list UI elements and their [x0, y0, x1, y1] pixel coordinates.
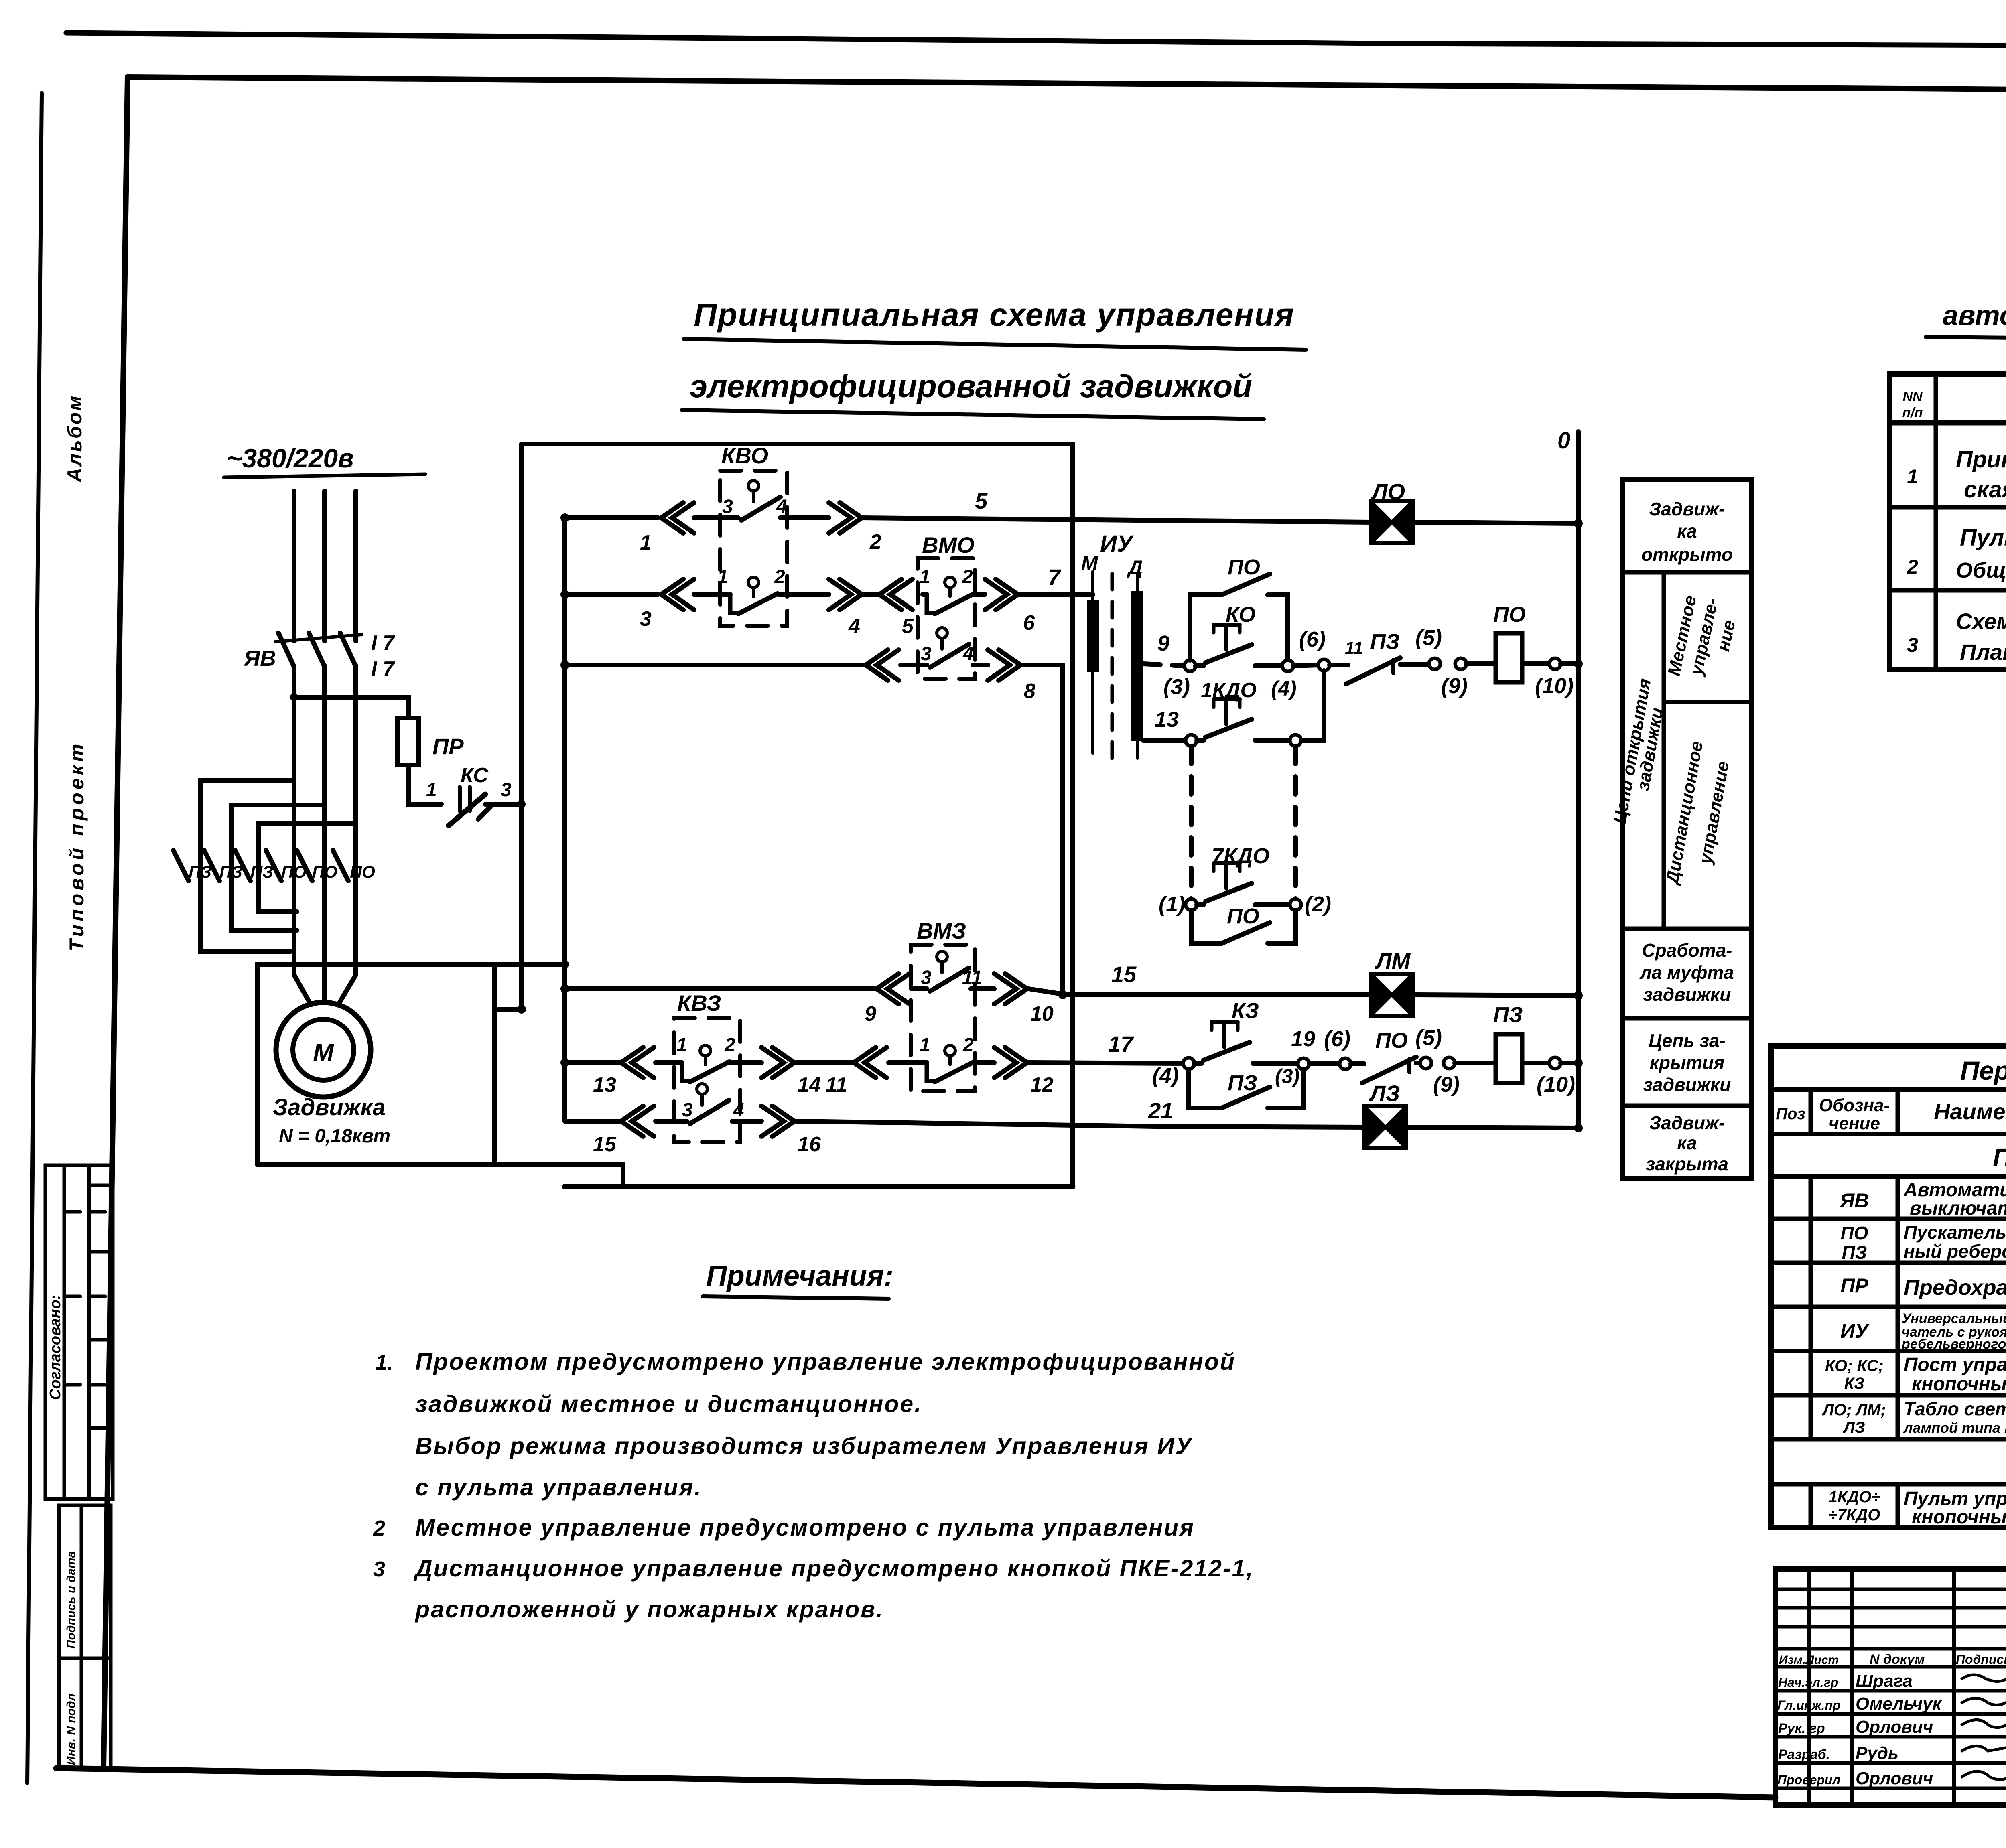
svg-text:21: 21 — [1148, 1098, 1173, 1123]
wire 13 — [1143, 738, 1186, 743]
wire rowC (circuit 21) — [565, 1121, 1155, 1126]
svg-text:Пускатель магнит-: Пускатель магнит- — [1904, 1222, 2006, 1243]
selector Д bar — [1136, 574, 1139, 758]
node (3) — [1184, 660, 1196, 671]
svg-text:3: 3 — [1907, 634, 1918, 656]
svg-text:ПЗ: ПЗ — [1493, 1003, 1523, 1027]
wire 21 to lamp ЛЗ — [1155, 1126, 1578, 1128]
svg-text:ПО: ПО — [312, 862, 337, 881]
svg-text:Орлович: Орлович — [1856, 1717, 1933, 1737]
limit switch KVO dashed box — [720, 471, 787, 626]
svg-text:ПР: ПР — [1840, 1274, 1868, 1297]
junction on L1 for fuse tap — [290, 693, 298, 701]
junction KC bus — [518, 800, 526, 808]
wire rowB (circuit 17) — [565, 1063, 1184, 1063]
wire to motor enclosure — [495, 1007, 522, 1012]
svg-text:Принципиальная схема управле: Принципиальная схема управления — [694, 297, 1295, 333]
wire row3 (circuit to 8) — [565, 663, 1063, 667]
svg-text:ПР: ПР — [432, 734, 464, 759]
svg-text:ка: ка — [1677, 521, 1697, 542]
signal lamp ЛМ — [1371, 974, 1413, 1016]
svg-text:закрыта: закрыта — [1646, 1154, 1728, 1175]
svg-text:Схема внешних соединений: Схема внешних соединений — [1956, 609, 2006, 634]
svg-text:Альбом: Альбом — [63, 394, 86, 483]
svg-text:13: 13 — [1155, 708, 1179, 732]
svg-text:3: 3 — [682, 1099, 693, 1121]
svg-text:Омельчук: Омельчук — [1856, 1694, 1943, 1714]
svg-text:КС: КС — [461, 764, 489, 787]
svg-text:(6): (6) — [1299, 627, 1326, 651]
svg-text:ный реберсивный: ный реберсивный — [1904, 1241, 2006, 1262]
motor M outer circle — [276, 1002, 371, 1097]
reversing bridge 1 — [200, 780, 294, 951]
chevron connector 10 — [994, 974, 1027, 1004]
svg-text:КО: КО — [1226, 602, 1256, 627]
svg-text:Выбор режима производится: Выбор режима производится избирателем Уп… — [415, 1433, 1193, 1459]
left bus rail — [562, 518, 567, 1121]
wire row1 (circuit 5) — [565, 518, 1578, 523]
svg-text:ЛО; ЛМ;: ЛО; ЛМ; — [1821, 1401, 1886, 1419]
node (4) — [1282, 660, 1293, 671]
svg-text:16: 16 — [798, 1133, 821, 1156]
chevron connector 6 — [985, 579, 1018, 610]
svg-text:Рудь: Рудь — [1856, 1743, 1898, 1763]
svg-text:2: 2 — [774, 566, 785, 588]
svg-text:(6): (6) — [1324, 1027, 1350, 1051]
svg-text:КО; КС;: КО; КС; — [1825, 1357, 1884, 1375]
chevron connector row3 left — [866, 650, 899, 680]
svg-text:лампой типа РНЦ-220/10: лампой типа РНЦ-220/10 — [1903, 1420, 2006, 1436]
svg-text:NN: NN — [1902, 389, 1923, 404]
svg-text:19: 19 — [1291, 1027, 1315, 1051]
svg-text:5: 5 — [975, 488, 988, 513]
svg-text:4: 4 — [776, 496, 787, 517]
wire 13 up to node 6 — [1301, 671, 1324, 740]
svg-text:ла муфта: ла муфта — [1639, 962, 1734, 983]
main frame left line — [104, 77, 128, 1767]
svg-text:7КДО: 7КДО — [1212, 844, 1269, 868]
svg-text:1: 1 — [920, 566, 930, 588]
node (5) — [1429, 658, 1440, 669]
svg-text:2: 2 — [1907, 556, 1918, 578]
svg-text:(10): (10) — [1535, 674, 1574, 698]
svg-text:ская схема: ская схема — [1964, 477, 2006, 503]
contactor blade ПО a — [266, 850, 281, 881]
chevron connector 9 — [877, 974, 910, 1004]
svg-text:11: 11 — [826, 1073, 847, 1097]
svg-text:N = 0,18квт: N = 0,18квт — [279, 1126, 390, 1147]
node (10) close — [1549, 1057, 1561, 1069]
svg-text:Сработа-: Сработа- — [1642, 940, 1732, 961]
annotation inner vertical — [1664, 572, 1752, 929]
contactor blade ПО c — [333, 850, 348, 881]
reversing bridge 2 — [232, 805, 325, 930]
wire 8 drop to lower section — [1060, 665, 1065, 995]
PO lower blade — [1222, 923, 1270, 943]
svg-text:2: 2 — [869, 530, 881, 554]
svg-text:5: 5 — [902, 615, 914, 638]
svg-text:Проверил: Проверил — [1777, 1773, 1841, 1787]
annotation column box — [1622, 479, 1752, 1178]
NC contact ПО — [1351, 1061, 1364, 1066]
main relay panel box top — [522, 442, 1073, 446]
motor enclosure box — [257, 964, 565, 1164]
svg-text:Подпись и дата: Подпись и дата — [65, 1551, 78, 1649]
svg-text:ЯВ: ЯВ — [1839, 1189, 1869, 1212]
svg-text:3: 3 — [501, 779, 512, 801]
main frame top line — [128, 77, 2006, 93]
svg-text:Табло световое с: Табло световое с — [1904, 1398, 2006, 1419]
svg-text:Орлович: Орлович — [1856, 1769, 1933, 1788]
wire 15 to lamp — [1062, 995, 1578, 996]
chevron connector 3 — [661, 579, 694, 610]
svg-text:4: 4 — [848, 615, 860, 638]
contactor blade ПЗ b — [204, 850, 219, 881]
svg-text:N докум: N докум — [1870, 1652, 1925, 1667]
svg-text:крытия: крытия — [1650, 1052, 1725, 1073]
svg-text:7: 7 — [1048, 564, 1062, 590]
svg-text:9: 9 — [1157, 631, 1169, 655]
svg-text:0: 0 — [1557, 428, 1570, 454]
svg-text:электрофицированной задвижкой: электрофицированной задвижкой — [690, 368, 1252, 404]
band ПУЭН-5 — [1771, 1174, 2006, 1179]
svg-text:ние: ние — [1714, 619, 1739, 653]
svg-text:Согласовано:: Согласовано: — [47, 1295, 64, 1400]
svg-text:Местное управление предусмо: Местное управление предусмотрено с пульт… — [415, 1514, 1195, 1541]
signal lamp ЛО — [1371, 501, 1413, 543]
dashed remote wire right — [1293, 746, 1298, 899]
chevron connector 12 — [994, 1047, 1027, 1078]
VMZ contact 3-11 — [937, 951, 947, 962]
svg-text:ПО: ПО — [1375, 1028, 1408, 1053]
VMZ contact 1-2 — [945, 1045, 955, 1056]
svg-text:автоматизации пожарной задви: автоматизации пожарной задвижки — [1943, 300, 2006, 331]
contactor blade ПЗ a — [173, 850, 189, 881]
limit switch KVZ dashed box — [674, 1018, 740, 1142]
signal lamp ЛЗ — [1364, 1106, 1406, 1148]
dashed remote wire left — [1189, 746, 1194, 899]
svg-text:1: 1 — [920, 1035, 930, 1056]
svg-text:12: 12 — [1030, 1073, 1054, 1097]
KC contact symbol — [449, 794, 485, 826]
phase wire L1 — [292, 491, 296, 641]
svg-text:План трубных проводок: План трубных проводок — [1960, 639, 2006, 665]
svg-text:ПЗ: ПЗ — [189, 862, 211, 881]
Согласовано table — [45, 1165, 113, 1499]
KVZ contact 3-4 — [697, 1084, 707, 1094]
header row band — [1771, 1132, 2006, 1136]
title block outer frame — [1775, 1569, 2006, 1805]
switch VMZ dashed box — [911, 945, 975, 1091]
switch VMO dashed box — [918, 558, 975, 679]
node 19 — [1298, 1058, 1309, 1069]
svg-text:чение: чение — [1829, 1114, 1880, 1133]
fuse ПР body — [397, 718, 419, 765]
title block vertical dividers (left part) — [1809, 1569, 2006, 1805]
node on 13 right — [1290, 735, 1301, 746]
selector M bar — [1091, 572, 1094, 753]
phase wire L1 lower — [292, 666, 296, 964]
title underline 1 — [684, 339, 1306, 350]
svg-text:кнопочный: кнопочный — [1912, 1507, 2006, 1528]
svg-text:(4): (4) — [1152, 1064, 1179, 1088]
svg-text:3: 3 — [722, 496, 733, 517]
sheet outer left edge — [27, 93, 42, 1783]
chevron connector 14 — [761, 1047, 794, 1078]
svg-text:6: 6 — [1023, 611, 1035, 635]
wire (4)-(6) — [1293, 665, 1318, 666]
svg-text:задвижкой местное и дис: задвижкой местное и дистанционное. — [415, 1391, 922, 1417]
svg-text:ка: ка — [1677, 1132, 1697, 1153]
svg-text:Обозна-: Обозна- — [1819, 1095, 1890, 1115]
svg-text:ПО: ПО — [281, 862, 307, 881]
svg-text:3: 3 — [921, 643, 932, 665]
VMO contact 3-4 — [937, 628, 947, 638]
svg-text:(5): (5) — [1415, 1026, 1442, 1050]
svg-text:(3): (3) — [1163, 675, 1190, 699]
svg-text:2: 2 — [373, 1516, 385, 1540]
svg-text:(9): (9) — [1441, 674, 1468, 698]
zero bus rail — [1576, 432, 1581, 1128]
svg-text:1: 1 — [426, 779, 437, 801]
chevron connector 16 — [761, 1106, 794, 1136]
phase wire L2 — [322, 491, 327, 641]
chevron connector 15 — [621, 1106, 654, 1136]
ПЗ bypass blade — [1222, 1087, 1270, 1108]
KVO contact 3-4 — [748, 481, 759, 491]
svg-text:ребельверного типа: ребельверного типа — [1901, 1337, 2006, 1352]
svg-text:15: 15 — [1111, 962, 1137, 987]
svg-text:Общий вид. Схема соединений: Общий вид. Схема соединений — [1956, 558, 2006, 582]
svg-text:Изм.Лист: Изм.Лист — [1779, 1653, 1839, 1667]
node (6) — [1318, 659, 1330, 671]
annotation row dividers — [1622, 572, 1752, 1106]
svg-text:ПО: ПО — [350, 862, 375, 881]
svg-text:М: М — [1081, 552, 1098, 574]
node (10) — [1549, 658, 1561, 669]
svg-text:4: 4 — [733, 1099, 744, 1121]
1КДО button — [1197, 738, 1204, 743]
svg-text:11: 11 — [962, 967, 982, 988]
Состав table columns — [1936, 374, 2006, 669]
node (2) — [1290, 899, 1301, 910]
svg-text:2: 2 — [724, 1035, 735, 1056]
chevron connector 8 — [988, 650, 1021, 680]
svg-text:9: 9 — [865, 1002, 876, 1026]
NC contact ПЗ — [1330, 663, 1348, 667]
chevron connector 1 — [661, 503, 694, 533]
svg-text:Задвижка: Задвижка — [273, 1094, 386, 1120]
svg-text:задвижки: задвижки — [1643, 1074, 1731, 1095]
phase wire L3 — [353, 491, 358, 641]
svg-text:Гл.инж.пр: Гл.инж.пр — [1777, 1698, 1841, 1712]
svg-text:Перечень электроаппаратуры: Перечень электроаппаратуры — [1960, 1056, 2006, 1085]
main relay panel box right edge — [1070, 444, 1075, 1187]
svg-text:задвижки: задвижки — [1643, 984, 1731, 1005]
Подпись и дата / Инв N подл strip — [59, 1505, 111, 1768]
svg-text:(1): (1) — [1159, 892, 1185, 916]
relay panel bottom edge — [564, 1184, 1073, 1189]
svg-text:1: 1 — [640, 531, 652, 554]
svg-text:КВЗ: КВЗ — [677, 990, 721, 1016]
vertical bus from box corner down — [519, 444, 524, 1009]
svg-text:ВМЗ: ВМЗ — [917, 918, 966, 943]
svg-text:Примечания:: Примечания: — [706, 1260, 893, 1292]
svg-text:(5): (5) — [1415, 626, 1442, 650]
Состав table rows — [1890, 420, 2006, 426]
svg-text:Принципиальная электриче-: Принципиальная электриче- — [1956, 446, 2006, 473]
svg-text:ПО: ПО — [1493, 602, 1526, 627]
svg-text:1: 1 — [1907, 465, 1918, 488]
svg-text:выключатель: выключатель — [1910, 1198, 2006, 1219]
svg-text:8: 8 — [1024, 680, 1035, 703]
svg-text:17: 17 — [1108, 1031, 1134, 1057]
svg-text:I 7: I 7 — [371, 657, 395, 681]
svg-text:15: 15 — [593, 1133, 617, 1156]
svg-text:управление: управление — [1695, 760, 1733, 866]
svg-text:КЗ: КЗ — [1232, 999, 1259, 1023]
svg-text:1: 1 — [676, 1035, 687, 1056]
svg-text:Пост управления: Пост управления — [1904, 1354, 2006, 1375]
node (5) close — [1420, 1057, 1431, 1069]
title block horizontal lines left part — [1775, 1589, 2006, 1788]
coil ПО — [1496, 633, 1522, 682]
svg-text:ПЗ: ПЗ — [219, 862, 242, 881]
КЗ button — [1194, 1061, 1202, 1066]
PO bypass lower loop — [1191, 910, 1295, 943]
bus bottom junction — [517, 1005, 526, 1014]
svg-text:Проектом предусмотрено упр: Проектом предусмотрено управление электр… — [415, 1349, 1236, 1375]
svg-text:I 7: I 7 — [371, 631, 395, 655]
svg-text:Инв. N подл: Инв. N подл — [65, 1693, 78, 1765]
chevron connector 4 — [829, 579, 862, 610]
breaker ЯВ blades — [278, 633, 356, 667]
row dividers — [1771, 1217, 2006, 1221]
svg-text:ПЗ: ПЗ — [1370, 630, 1400, 654]
svg-text:ПО: ПО — [1841, 1223, 1868, 1243]
svg-text:Цепь за-: Цепь за- — [1649, 1030, 1726, 1051]
svg-text:ЛО: ЛО — [1370, 479, 1405, 504]
svg-text:(2): (2) — [1305, 892, 1331, 916]
svg-text:ПО: ПО — [1228, 555, 1260, 579]
coil ПЗ — [1496, 1034, 1522, 1083]
svg-text:ИУ: ИУ — [1100, 531, 1134, 557]
svg-text:ЛЗ: ЛЗ — [1368, 1081, 1400, 1106]
svg-text:3: 3 — [921, 967, 932, 988]
node on 13 left — [1186, 735, 1197, 746]
node (9) close — [1444, 1057, 1455, 1069]
node (4) close — [1183, 1058, 1194, 1069]
svg-text:открыто: открыто — [1641, 544, 1733, 565]
motor feed funnel — [294, 964, 356, 1005]
enclosure bottom with step — [257, 1164, 623, 1187]
svg-text:М: М — [313, 1039, 334, 1067]
svg-text:2: 2 — [962, 566, 973, 588]
svg-text:КЗ: КЗ — [1844, 1375, 1864, 1392]
svg-text:ЛМ: ЛМ — [1375, 948, 1411, 974]
svg-text:ПЗ: ПЗ — [250, 862, 273, 881]
svg-text:11: 11 — [1345, 638, 1363, 658]
PO self-hold bypass upper — [1190, 595, 1288, 660]
svg-text:Рук. гр: Рук. гр — [1778, 1721, 1825, 1736]
svg-text:(3): (3) — [1275, 1065, 1299, 1087]
svg-text:Шрага: Шрага — [1856, 1671, 1913, 1691]
Перечень table outer frame — [1771, 1046, 2006, 1527]
chevron connector 2 — [829, 503, 862, 533]
svg-text:ЯВ: ЯВ — [243, 646, 276, 671]
node (9) — [1455, 658, 1466, 669]
VMO contact 1-2 — [945, 577, 955, 588]
PO bypass blade — [1222, 574, 1270, 595]
svg-text:Разраб.: Разраб. — [1778, 1747, 1830, 1762]
chevron connector 5 — [879, 579, 912, 610]
wire fuse to KC — [408, 765, 441, 804]
svg-text:с пульта управления.: с пульта управления. — [415, 1474, 702, 1501]
svg-text:Типовой проект: Типовой проект — [65, 741, 88, 951]
svg-text:Предохранитель: Предохранитель — [1904, 1276, 2006, 1300]
7КДО button — [1197, 902, 1204, 907]
fuse tap wire — [294, 697, 408, 718]
svg-text:Дистанционное: Дистанционное — [1662, 740, 1707, 887]
motor M inner circle — [293, 1019, 354, 1080]
wire KC to bus — [485, 802, 522, 807]
header columns — [1811, 1089, 2006, 1134]
svg-text:Дистанционное управление п: Дистанционное управление предусмотрено к… — [413, 1555, 1254, 1582]
svg-text:Задвиж-: Задвиж- — [1649, 499, 1725, 519]
svg-text:(10): (10) — [1537, 1073, 1575, 1097]
svg-text:(9): (9) — [1433, 1073, 1460, 1097]
Состав table frame — [1890, 374, 2006, 669]
breaker ЯВ linkage — [275, 635, 362, 642]
svg-text:Поз: Поз — [1776, 1105, 1805, 1123]
svg-text:Задвиж-: Задвиж- — [1649, 1112, 1725, 1133]
svg-text:÷7КДО: ÷7КДО — [1829, 1506, 1880, 1524]
svg-text:Нач.эл.гр: Нач.эл.гр — [1778, 1675, 1838, 1690]
reversing bridge 3 — [259, 823, 356, 912]
svg-text:ЛЗ: ЛЗ — [1842, 1419, 1865, 1436]
svg-text:3: 3 — [640, 607, 652, 631]
KO button — [1196, 663, 1204, 668]
supply label underline — [224, 474, 425, 477]
wire row2 (circuit 7) — [565, 592, 1093, 597]
svg-text:кнопочный: кнопочный — [1912, 1373, 2006, 1395]
wire rowA (circuit 15) — [565, 989, 1062, 994]
svg-text:ПО: ПО — [1227, 904, 1259, 928]
svg-text:ИУ: ИУ — [1840, 1320, 1870, 1342]
svg-text:Универсальный переклю-: Универсальный переклю- — [1902, 1311, 2006, 1326]
svg-text:~380/220в: ~380/220в — [227, 443, 354, 473]
selector dashed divider — [1111, 574, 1114, 758]
svg-text:13: 13 — [593, 1073, 616, 1097]
svg-text:Пульт управления ПУЭН-5: Пульт управления ПУЭН-5 — [1993, 1143, 2006, 1172]
node (6) close — [1340, 1058, 1351, 1069]
svg-text:1: 1 — [717, 566, 728, 588]
wire 9 dashed from selector — [1143, 664, 1184, 666]
svg-text:(4): (4) — [1271, 677, 1297, 700]
sheet bottom line — [56, 1768, 1775, 1797]
svg-text:3: 3 — [373, 1557, 385, 1581]
node (1) — [1186, 899, 1197, 910]
svg-text:2: 2 — [962, 1035, 974, 1056]
contactor blade ПО b — [297, 850, 312, 881]
svg-text:расположенной у пожарных к: расположенной у пожарных кранов. — [414, 1596, 884, 1623]
svg-text:Пульт управления: Пульт управления — [1960, 525, 2006, 551]
svg-text:п/п: п/п — [1902, 405, 1923, 420]
svg-text:ВМО: ВМО — [922, 532, 975, 558]
ПЗ bypass below КЗ — [1189, 1069, 1303, 1108]
svg-text:4: 4 — [962, 643, 974, 665]
svg-text:1КДО: 1КДО — [1201, 679, 1257, 702]
